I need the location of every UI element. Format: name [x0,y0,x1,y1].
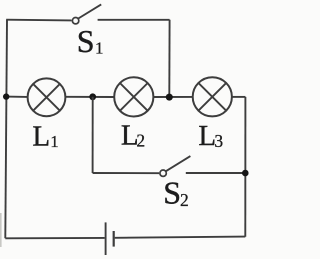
wire: bottom rail left segment [5,237,104,239]
switch S1 [72,4,101,24]
wire: middle rail, left rail to L1 [6,96,27,98]
wire: lamp row L1 to L2 [66,96,114,98]
node A (left rail / lamp row junction) [3,93,9,99]
wire: S2 branch horizontal right segment [186,172,246,174]
node C (junction between L1 and L2, tap to S2 branch) [89,93,96,100]
wire: top branch left segment [6,19,71,22]
lamp L3 [193,77,232,116]
svg-text:S: S [163,175,181,211]
svg-text:3: 3 [214,131,223,151]
wire: drop from top branch to node B [168,20,170,97]
svg-text:1: 1 [95,38,104,57]
wire: lamp row L2 to L3 [154,96,192,98]
wire: top branch right segment [98,19,170,21]
wire: S2 branch horizontal left segment [93,172,160,174]
svg-text:2: 2 [136,131,145,151]
wire: left rail vertical [5,20,7,239]
wire: S2 branch vertical drop from node C [92,97,94,173]
battery B1 [106,222,114,255]
svg-text:1: 1 [50,132,58,151]
svg-text:2: 2 [180,190,189,210]
switch S2 [160,156,190,176]
wire: right rail vertical [244,97,246,237]
lamp L1 [28,78,66,116]
svg-text:S: S [77,23,95,59]
svg-text:L: L [32,120,50,152]
lamp L2 [114,77,153,116]
node B (junction between L2 and L3, tap to top branch) [166,94,173,101]
wire: bottom rail right segment [115,237,246,238]
node D (right rail / S2 branch junction) [242,170,249,177]
wire: lamp row L3 to right rail [233,96,246,98]
